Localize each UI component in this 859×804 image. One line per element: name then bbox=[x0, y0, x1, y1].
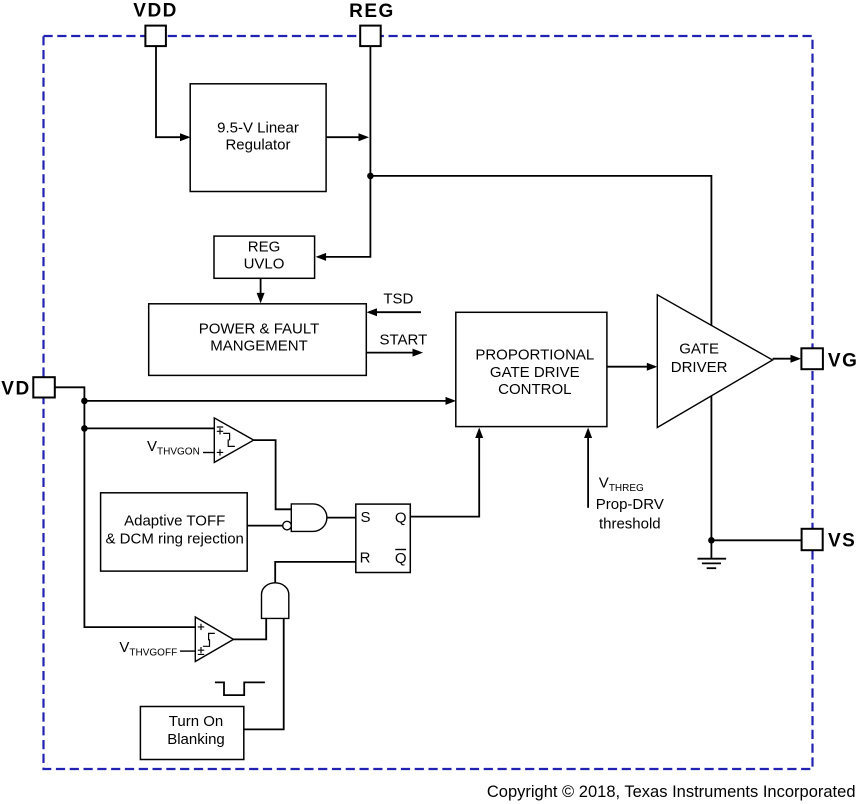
pulse waveform glyph bbox=[215, 682, 265, 695]
svg-text:S: S bbox=[360, 509, 370, 526]
junction VD branch B bbox=[81, 425, 88, 432]
arrowhead into REG UVLO bbox=[316, 253, 327, 261]
svg-text:CONTROL: CONTROL bbox=[498, 381, 571, 398]
arrowhead VTHREG into proportional control bbox=[584, 428, 592, 439]
svg-text:REG: REG bbox=[349, 1, 395, 22]
wire START output bbox=[366, 352, 420, 354]
svg-text:UVLO: UVLO bbox=[244, 256, 285, 273]
svg-text:R: R bbox=[360, 550, 371, 567]
wire gate driver output to VG pin bbox=[773, 358, 799, 360]
wire VDD pin to regulator input bbox=[156, 47, 188, 138]
arrowhead into gate driver bbox=[647, 363, 658, 371]
arrowhead into VG pin bbox=[791, 355, 802, 363]
svg-text:REG: REG bbox=[248, 238, 281, 255]
svg-text:Turn On: Turn On bbox=[169, 713, 223, 730]
svg-text:VDD: VDD bbox=[133, 1, 178, 22]
junction REG net bbox=[367, 173, 374, 180]
wire REG pin down and into REG UVLO bbox=[318, 47, 370, 257]
wire latch Q to proportional control bbox=[410, 430, 479, 517]
svg-text:VTHREG: VTHREG bbox=[599, 475, 644, 495]
wire REG UVLO to power management bbox=[260, 278, 262, 300]
wire VD pin to comparators bbox=[55, 387, 196, 627]
wire regulator output to REG net bbox=[326, 136, 358, 138]
svg-text:VG: VG bbox=[828, 351, 858, 372]
svg-text:Copyright © 2018, Texas Instru: Copyright © 2018, Texas Instruments Inco… bbox=[487, 783, 856, 801]
junction ground node bbox=[708, 537, 715, 544]
wire VTHVGOFF stub bbox=[180, 650, 195, 652]
block turn on blanking bbox=[140, 707, 243, 760]
AND gate A1 with inverted input bbox=[283, 504, 327, 532]
arrowhead into regulator bbox=[180, 133, 191, 141]
pin REG bbox=[349, 1, 395, 46]
wire turn-on blanking to AND2 bbox=[244, 618, 284, 729]
arrowhead into proportional control bbox=[446, 397, 457, 405]
svg-text:TSD: TSD bbox=[383, 291, 413, 308]
block power and fault management bbox=[149, 304, 367, 376]
svg-text:START: START bbox=[380, 332, 428, 349]
arrowhead into power management bbox=[257, 293, 265, 304]
pin VD bbox=[1, 377, 55, 399]
block REG UVLO bbox=[214, 236, 315, 278]
svg-text:POWER & FAULT: POWER & FAULT bbox=[199, 321, 320, 338]
svg-text:Regulator: Regulator bbox=[225, 137, 290, 154]
wire REG net to gate driver supply and ground bbox=[370, 176, 711, 559]
svg-text:Blanking: Blanking bbox=[167, 731, 225, 748]
SR latch bbox=[356, 504, 411, 572]
wire ground to VS pin bbox=[711, 539, 801, 541]
svg-text:Q: Q bbox=[395, 510, 407, 527]
wire VD branch to THVGON comparator bbox=[84, 427, 214, 429]
wire VD branch to proportional control bbox=[84, 400, 453, 402]
svg-text:threshold: threshold bbox=[599, 516, 661, 533]
wire VTHREG threshold input bbox=[587, 430, 589, 508]
svg-text:Prop-DRV: Prop-DRV bbox=[596, 496, 664, 513]
svg-text:VTHVGOFF: VTHVGOFF bbox=[119, 639, 177, 659]
arrowhead TSD into power management bbox=[367, 308, 378, 316]
junction VD branch A bbox=[81, 398, 88, 405]
wire THVGOFF comparator output to AND2 bbox=[234, 618, 267, 639]
arrowhead START bbox=[413, 349, 424, 357]
svg-text:9.5-V Linear: 9.5-V Linear bbox=[217, 119, 299, 136]
arrowhead at REG net bbox=[359, 133, 370, 141]
block proportional gate drive control bbox=[456, 312, 607, 426]
wire AND2 output to latch R bbox=[275, 562, 356, 583]
svg-text:Adaptive TOFF: Adaptive TOFF bbox=[124, 513, 225, 530]
wire AND gate output to latch S bbox=[327, 517, 356, 519]
svg-text:DRIVER: DRIVER bbox=[671, 359, 728, 376]
AND gate A2 bbox=[262, 583, 289, 619]
arrowhead Q into proportional control bbox=[475, 428, 483, 439]
pin VS bbox=[802, 529, 857, 552]
wire proportional control to gate driver bbox=[607, 366, 655, 368]
wire TSD input bbox=[369, 311, 421, 313]
svg-text:& DCM ring rejection: & DCM ring rejection bbox=[106, 531, 244, 548]
svg-text:VS: VS bbox=[828, 531, 856, 552]
pin VDD bbox=[133, 1, 178, 47]
svg-text:PROPORTIONAL: PROPORTIONAL bbox=[475, 347, 594, 364]
ground symbol bbox=[698, 559, 727, 569]
svg-text:MANGEMENT: MANGEMENT bbox=[210, 338, 308, 355]
wire VTHVGON stub bbox=[203, 452, 214, 454]
block adaptive TOFF and DCM ring rejection bbox=[101, 493, 248, 571]
comparator THVGOFF bbox=[195, 617, 233, 662]
gate driver triangle U1 bbox=[657, 295, 772, 428]
svg-text:GATE: GATE bbox=[679, 340, 719, 357]
pin VG bbox=[801, 348, 858, 371]
svg-text:VD: VD bbox=[1, 378, 30, 399]
svg-text:GATE DRIVE: GATE DRIVE bbox=[490, 364, 580, 381]
svg-text:Q: Q bbox=[395, 550, 407, 567]
block 9.5-V linear regulator bbox=[190, 84, 326, 192]
wire adaptive TOFF output to AND bubble bbox=[247, 525, 282, 527]
comparator THVGON bbox=[214, 418, 253, 463]
wire THVGON comparator output to AND gate bbox=[254, 440, 292, 509]
svg-text:VTHVGON: VTHVGON bbox=[147, 438, 200, 458]
label VTHREG threshold bbox=[596, 475, 664, 533]
